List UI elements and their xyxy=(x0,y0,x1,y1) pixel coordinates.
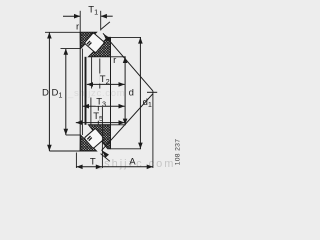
d1 dim line xyxy=(139,37,141,148)
pressure line bottom (to apex) xyxy=(102,94,153,151)
svg-text:T: T xyxy=(90,157,96,168)
housing washer bottom (hatched) xyxy=(80,135,96,151)
T ext left xyxy=(75,153,77,169)
T5 dim line xyxy=(76,122,125,124)
T3 dim line xyxy=(83,105,125,107)
silhouette line 3 (thick) xyxy=(85,57,87,125)
D1 ext top xyxy=(61,48,81,50)
T1 dim line right tail xyxy=(101,15,113,17)
housing washer top (hatched) xyxy=(80,32,96,48)
left face silhouette xyxy=(79,32,81,151)
D dim line xyxy=(48,32,50,151)
cage line bottom 2 xyxy=(97,98,99,125)
pressure line barb top xyxy=(101,22,110,30)
roller bottom xyxy=(84,128,104,148)
roller top axis marks xyxy=(87,41,90,44)
d dim line xyxy=(124,57,126,125)
T1 dim line left tail xyxy=(63,15,80,17)
cage line top 2 xyxy=(99,59,101,89)
silhouette line 2 xyxy=(81,49,83,135)
label T2 xyxy=(99,74,109,84)
svg-text:r: r xyxy=(113,55,116,66)
D ext top xyxy=(45,31,80,33)
svg-text:r: r xyxy=(76,21,79,32)
roller top xyxy=(84,33,104,53)
shaft washer bottom (hatched) xyxy=(89,125,111,149)
pressure line barb bottom xyxy=(101,154,110,162)
d1 ext bottom xyxy=(111,148,142,150)
label T5 xyxy=(93,111,103,121)
shaft washer back face silhouette xyxy=(110,37,112,148)
d ext bottom xyxy=(103,124,126,126)
cage line bottom 1 xyxy=(90,98,92,125)
d ext top xyxy=(111,56,126,58)
roller bottom axis marks xyxy=(87,136,90,139)
T1 ext right xyxy=(100,11,102,31)
cage line top 1 xyxy=(91,57,93,89)
svg-text:D: D xyxy=(42,88,49,99)
T dim line xyxy=(76,166,102,168)
T1 ext left xyxy=(79,11,81,33)
d1 ext top xyxy=(108,36,141,38)
T2 dim line xyxy=(87,83,125,85)
svg-text:108 237: 108 237 xyxy=(175,139,182,166)
svg-text:d: d xyxy=(129,88,134,99)
pressure line top (to apex) xyxy=(103,33,153,91)
D1 dim line xyxy=(65,49,67,135)
A dim line xyxy=(102,166,153,168)
T ext right / A left xyxy=(101,107,103,168)
A ext right (apex) xyxy=(152,91,154,168)
D ext bottom xyxy=(49,150,80,152)
centerline dash at apex xyxy=(147,91,157,93)
D1 ext bottom xyxy=(66,134,80,136)
shaft washer top (hatched) xyxy=(89,37,111,56)
label T3 xyxy=(96,96,106,106)
svg-text:A: A xyxy=(129,157,136,168)
